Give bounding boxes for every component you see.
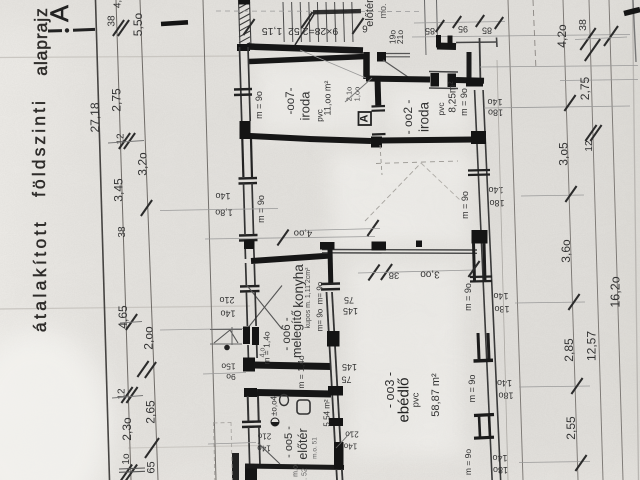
- svg-text:m = 1,4o: m = 1,4o: [296, 355, 306, 389]
- svg-text:2,85: 2,85: [562, 338, 576, 362]
- svg-text:±o,o4: ±o,o4: [270, 395, 279, 416]
- right wall pier y76: [466, 78, 483, 87]
- V1 door sill pair: [372, 105, 386, 108]
- wall W1 right segment: [437, 43, 456, 51]
- NE corner vertical thick bar: [467, 52, 472, 82]
- wall W3 right segment: [456, 77, 484, 84]
- left wall window y263-285: [245, 263, 248, 285]
- section line dash-dot: [48, 29, 62, 32]
- tick on C y208: [141, 200, 152, 216]
- svg-text:58,87 m²: 58,87 m²: [430, 373, 442, 417]
- dim line y373: [203, 373, 246, 375]
- svg-text:14o: 14o: [488, 185, 503, 195]
- svg-text:65: 65: [146, 461, 158, 473]
- right sheet edge line: [633, 0, 639, 480]
- svg-text:21o: 21o: [395, 30, 405, 44]
- chain line A (sheet border): [96, 0, 110, 480]
- vent symbol outside: [210, 329, 242, 331]
- left wall window y183-234: [244, 183, 246, 234]
- svg-text:75: 75: [341, 375, 351, 385]
- svg-text:m.o.: m.o.: [293, 463, 300, 477]
- stair treads: [283, 2, 353, 42]
- W3 window sill lines: [429, 71, 458, 74]
- svg-text:16,2o: 16,2o: [609, 276, 623, 307]
- svg-text:m = 9o: m = 9o: [254, 91, 264, 119]
- right tick pair 38: [580, 28, 595, 50]
- window pillar a in W3: [431, 73, 440, 87]
- right tick pair 12: [585, 125, 596, 141]
- svg-text:pvc: pvc: [436, 102, 446, 116]
- svg-text:A: A: [359, 114, 371, 122]
- window dim chain line x497: [497, 60, 508, 480]
- wall corner L at x366: [363, 52, 370, 79]
- svg-text:3,45: 3,45: [112, 178, 126, 202]
- svg-text:pvc: pvc: [411, 392, 422, 407]
- svg-text:2,3o: 2,3o: [120, 417, 134, 441]
- svg-text:21o: 21o: [345, 430, 359, 439]
- stair hatched exterior wall: [239, 0, 250, 47]
- right wall sill bar y360: [474, 358, 494, 362]
- chain line D dashed: [203, 0, 216, 480]
- stair smudge mark: [313, 9, 361, 15]
- svg-text:3,oo: 3,oo: [420, 269, 440, 280]
- door swing diagonal room007: [345, 78, 372, 102]
- mid wall vertical x330: [328, 249, 334, 284]
- V1 bottom junction blob: [371, 137, 382, 148]
- svg-text:m= 9o: m= 9o: [316, 308, 325, 331]
- wall W7 konyha north: [251, 256, 331, 262]
- right wall window lines: [475, 90, 493, 480]
- svg-text:m = 9o: m = 9o: [460, 191, 470, 219]
- paper grain noise: [0, 0, 1, 1]
- svg-text:38: 38: [389, 270, 400, 281]
- wall W4 right: [381, 140, 474, 141]
- svg-text:átalakított: átalakított: [30, 219, 50, 332]
- right chain R1: [508, 0, 523, 480]
- wall W2 room north: [249, 57, 365, 62]
- level symbol half circle: [271, 422, 279, 426]
- ebedlo wall pier y442: [334, 442, 344, 469]
- svg-text:2,oo: 2,oo: [142, 326, 156, 350]
- right wall sill pair y277: [470, 275, 492, 278]
- wall W9 konyha south: [254, 365, 331, 367]
- tick pair bottom: [121, 465, 132, 480]
- dim line y238: [205, 237, 375, 240]
- right wall thick window lines y243-281: [474, 243, 475, 281]
- left wall sill pair y235: [239, 234, 258, 237]
- svg-text:18o: 18o: [488, 108, 503, 118]
- chain line B: [116, 0, 131, 480]
- svg-text:kupos m. 1,11 2cm²: kupos m. 1,11 2cm²: [305, 267, 312, 329]
- svg-text:m = 9o: m = 9o: [459, 88, 469, 116]
- bottom step bar outside: [232, 453, 239, 480]
- dim line y443: [208, 443, 256, 445]
- sink fixture: [297, 400, 310, 414]
- svg-text:m = 9o: m = 9o: [467, 375, 477, 403]
- svg-text:melegítő: melegítő: [290, 310, 304, 358]
- left wall pier y241: [244, 240, 255, 249]
- right wall thick window lines y333-359: [478, 333, 479, 359]
- svg-text:14o: 14o: [220, 309, 235, 319]
- svg-text:3,6o: 3,6o: [559, 239, 573, 263]
- ebedlo wall pier y418: [329, 418, 343, 426]
- tick pair 12: [119, 133, 130, 149]
- top small ticks: [436, 20, 444, 32]
- svg-text:iroda: iroda: [298, 91, 313, 121]
- svg-text:m = 9o: m = 9o: [463, 283, 473, 311]
- right tick y194: [565, 186, 576, 202]
- dim stub at 12: [108, 141, 144, 144]
- svg-text:3,o5: 3,o5: [557, 142, 571, 166]
- mid wall double line y250: [322, 249, 477, 252]
- left wall pier y121: [240, 121, 251, 139]
- wall W9b eloter north: [257, 393, 331, 395]
- tick pair 38 top: [113, 20, 124, 36]
- ebedlo wall pier y386: [328, 386, 343, 396]
- tick on C y445?: [137, 361, 148, 377]
- svg-text:4,: 4,: [113, 0, 124, 8]
- hatched wall black cap: [239, 0, 251, 5]
- section line thick dash: [161, 22, 188, 24]
- svg-text:85: 85: [425, 26, 435, 36]
- svg-text:75: 75: [344, 295, 354, 305]
- small dot symbol: [224, 345, 230, 351]
- left wall window lines upper: [240, 47, 242, 121]
- right wall sill bar y437.5: [474, 437, 494, 438]
- door threshold lines: [386, 53, 410, 55]
- svg-text:18o: 18o: [493, 465, 508, 475]
- svg-text:27,18: 27,18: [88, 102, 102, 132]
- svg-text:14o: 14o: [343, 442, 357, 451]
- top-right corner black mark: [624, 10, 640, 14]
- svg-text:m. 52: m. 52: [302, 468, 309, 480]
- faint dashed horizontal y162: [376, 161, 458, 164]
- right wall pier y230: [472, 230, 488, 244]
- svg-text:5,54 m²: 5,54 m²: [323, 399, 332, 426]
- svg-text:38: 38: [577, 19, 589, 31]
- left wall window y145-177: [242, 139, 243, 177]
- window pillar b in W3: [448, 74, 457, 88]
- svg-text:-oo7-: -oo7-: [285, 87, 297, 114]
- faint diagonal stairwell: [300, 50, 366, 78]
- svg-text:A: A: [46, 5, 74, 22]
- left wall window y292-326: [246, 292, 247, 326]
- svg-text:145: 145: [342, 362, 357, 372]
- right tick y386: [571, 378, 582, 394]
- svg-text:- oo2 -: - oo2 -: [401, 100, 415, 135]
- wall V1 x377 upper: [375, 78, 382, 106]
- svg-text:földszinti: földszinti: [29, 98, 49, 197]
- svg-text:18o: 18o: [494, 304, 509, 314]
- svg-text:14o: 14o: [487, 97, 502, 107]
- svg-text:14o: 14o: [492, 453, 507, 463]
- svg-text:2,75: 2,75: [110, 88, 124, 112]
- faint diagonal mid up: [365, 163, 421, 221]
- svg-text:m = 9o: m = 9o: [463, 449, 473, 475]
- chain line C: [140, 0, 158, 480]
- left wall sill pair y178: [239, 177, 258, 180]
- V1 door sill pair lower: [372, 133, 386, 136]
- door pocket pillars above: [436, 35, 441, 48]
- right tick y302: [568, 294, 579, 310]
- svg-text:előtér: előtér: [364, 0, 376, 27]
- dim line y209: [160, 209, 278, 211]
- tick on C y370: [145, 362, 156, 378]
- door pillar x377-386: [377, 52, 386, 62]
- faint diagonal mid down: [421, 163, 460, 200]
- paper crease line y446: [128, 446, 262, 449]
- paper crease line y308: [0, 306, 250, 309]
- NE window thin line: [456, 41, 497, 44]
- faint dashed V1 continuation: [380, 145, 382, 175]
- svg-text:14o: 14o: [497, 378, 512, 388]
- svg-text:előtér: előtér: [296, 428, 310, 459]
- stair direction arrow: [295, 11, 316, 45]
- wc fixture circle: [280, 395, 289, 406]
- left wall door jambs y327: [243, 327, 250, 345]
- dim line y329: [160, 329, 243, 331]
- right tick y463: [575, 455, 586, 471]
- svg-text:145: 145: [343, 306, 358, 316]
- wall W9 junction blob: [243, 358, 255, 372]
- small wall mark x416: [416, 241, 422, 248]
- ebedlo west wall lines: [327, 292, 338, 480]
- svg-text:14o: 14o: [493, 291, 508, 301]
- svg-text:mo.: mo.: [378, 3, 388, 18]
- faint top horizontal y36: [412, 35, 630, 38]
- svg-text:2,55: 2,55: [564, 416, 578, 440]
- tick 4.65: [126, 314, 137, 330]
- mid wall corner block x320: [320, 242, 335, 250]
- section box A: [359, 112, 372, 125]
- svg-text:4,o: 4,o: [260, 348, 267, 358]
- right tick 2.75: [564, 95, 575, 111]
- bottom wall block left: [245, 464, 257, 480]
- paper crease line y57: [0, 56, 240, 58]
- wall W1 stair south: [247, 47, 363, 51]
- stair ticks: [243, 19, 254, 35]
- svg-text:3,2o: 3,2o: [136, 152, 150, 176]
- right tick x611: [604, 26, 618, 46]
- mid sill pair y283: [321, 282, 340, 285]
- right chain short x534: [533, 0, 536, 70]
- left wall sill pair y286: [240, 285, 260, 288]
- svg-text:11,oo m²: 11,oo m²: [323, 81, 333, 116]
- bottom wall line: [245, 466, 344, 468]
- svg-text:21o: 21o: [257, 432, 271, 441]
- svg-text:8,25m²: 8,25m²: [448, 81, 459, 113]
- svg-text:4,oo: 4,oo: [294, 228, 313, 239]
- svg-text:iroda: iroda: [417, 102, 432, 133]
- big tick y448: [145, 438, 159, 458]
- wall W4 left: [250, 136, 310, 139]
- svg-text:4,2o: 4,2o: [555, 24, 569, 48]
- svg-text:m= 9o: m= 9o: [316, 281, 325, 304]
- svg-text:38: 38: [107, 15, 118, 27]
- right wall pier y131: [471, 131, 486, 144]
- svg-text:2,65: 2,65: [144, 400, 158, 424]
- faint horizontal y229: [300, 229, 380, 231]
- tick on right wall y269: [468, 261, 479, 277]
- stair top dashed line: [216, 10, 420, 13]
- left wall sill pair y89: [234, 88, 252, 91]
- left wall window y345-357: [247, 345, 249, 358]
- svg-text:4,65: 4,65: [116, 305, 130, 329]
- flue cross X: [247, 286, 282, 330]
- left wall pier y388: [244, 388, 257, 397]
- small door swing: [336, 432, 351, 448]
- NE corner vertical thin: [480, 38, 481, 85]
- right wall thick window lines y415-437: [479, 415, 480, 437]
- svg-text:9×28=2,52 1,15: 9×28=2,52 1,15: [262, 25, 339, 37]
- svg-text:85: 85: [482, 26, 492, 36]
- door swing diagonal: [383, 60, 408, 77]
- right wall sill pair y170: [468, 169, 490, 172]
- svg-text:12,57: 12,57: [585, 331, 599, 361]
- svg-text:5,5o: 5,5o: [131, 12, 145, 36]
- right chain R2: [563, 0, 578, 480]
- svg-text:konyha: konyha: [291, 264, 306, 308]
- door swing eloter: [258, 443, 280, 464]
- right wall sill bar y415: [474, 415, 494, 416]
- mid wall pillar x371: [372, 242, 387, 251]
- svg-text:2,75: 2,75: [578, 76, 592, 100]
- svg-text:95: 95: [458, 24, 468, 34]
- faint top horizontal y22: [414, 22, 505, 24]
- svg-text:15o: 15o: [221, 362, 235, 372]
- svg-text:12: 12: [584, 140, 595, 152]
- ebedlo wall pier y331: [327, 331, 340, 347]
- dim 38 ticks y272: [368, 265, 379, 281]
- tick y237: [277, 230, 288, 246]
- left wall window y427-466: [249, 427, 250, 466]
- tick y228: [367, 220, 378, 236]
- top construction verticals: [425, 0, 427, 55]
- svg-text:- oo5 -: - oo5 -: [283, 426, 295, 458]
- wall W3 horizontal y79: [366, 79, 430, 80]
- dim line y273: [358, 270, 474, 273]
- left wall door lines y396-421: [247, 396, 250, 421]
- right chain R4: [609, 0, 623, 480]
- left wall window y249-258: [244, 249, 246, 259]
- dashed step rectangle: [214, 422, 215, 480]
- scan mottling blobs: [0, 0, 1, 1]
- svg-text:38: 38: [117, 226, 128, 238]
- svg-text:m.o. 51: m.o. 51: [312, 437, 319, 459]
- svg-text:21o: 21o: [219, 295, 234, 305]
- tick pair 12 lower: [121, 387, 132, 403]
- hatch wall bottom bar: [237, 44, 250, 51]
- svg-text:14o: 14o: [215, 191, 230, 201]
- left wall sill pair y422: [242, 420, 261, 423]
- right chain R3: [589, 0, 603, 480]
- svg-text:1o: 1o: [121, 453, 132, 465]
- right faint horizontals: [480, 66, 638, 68]
- svg-text:18o: 18o: [489, 198, 504, 208]
- right dim line y38: [575, 37, 627, 40]
